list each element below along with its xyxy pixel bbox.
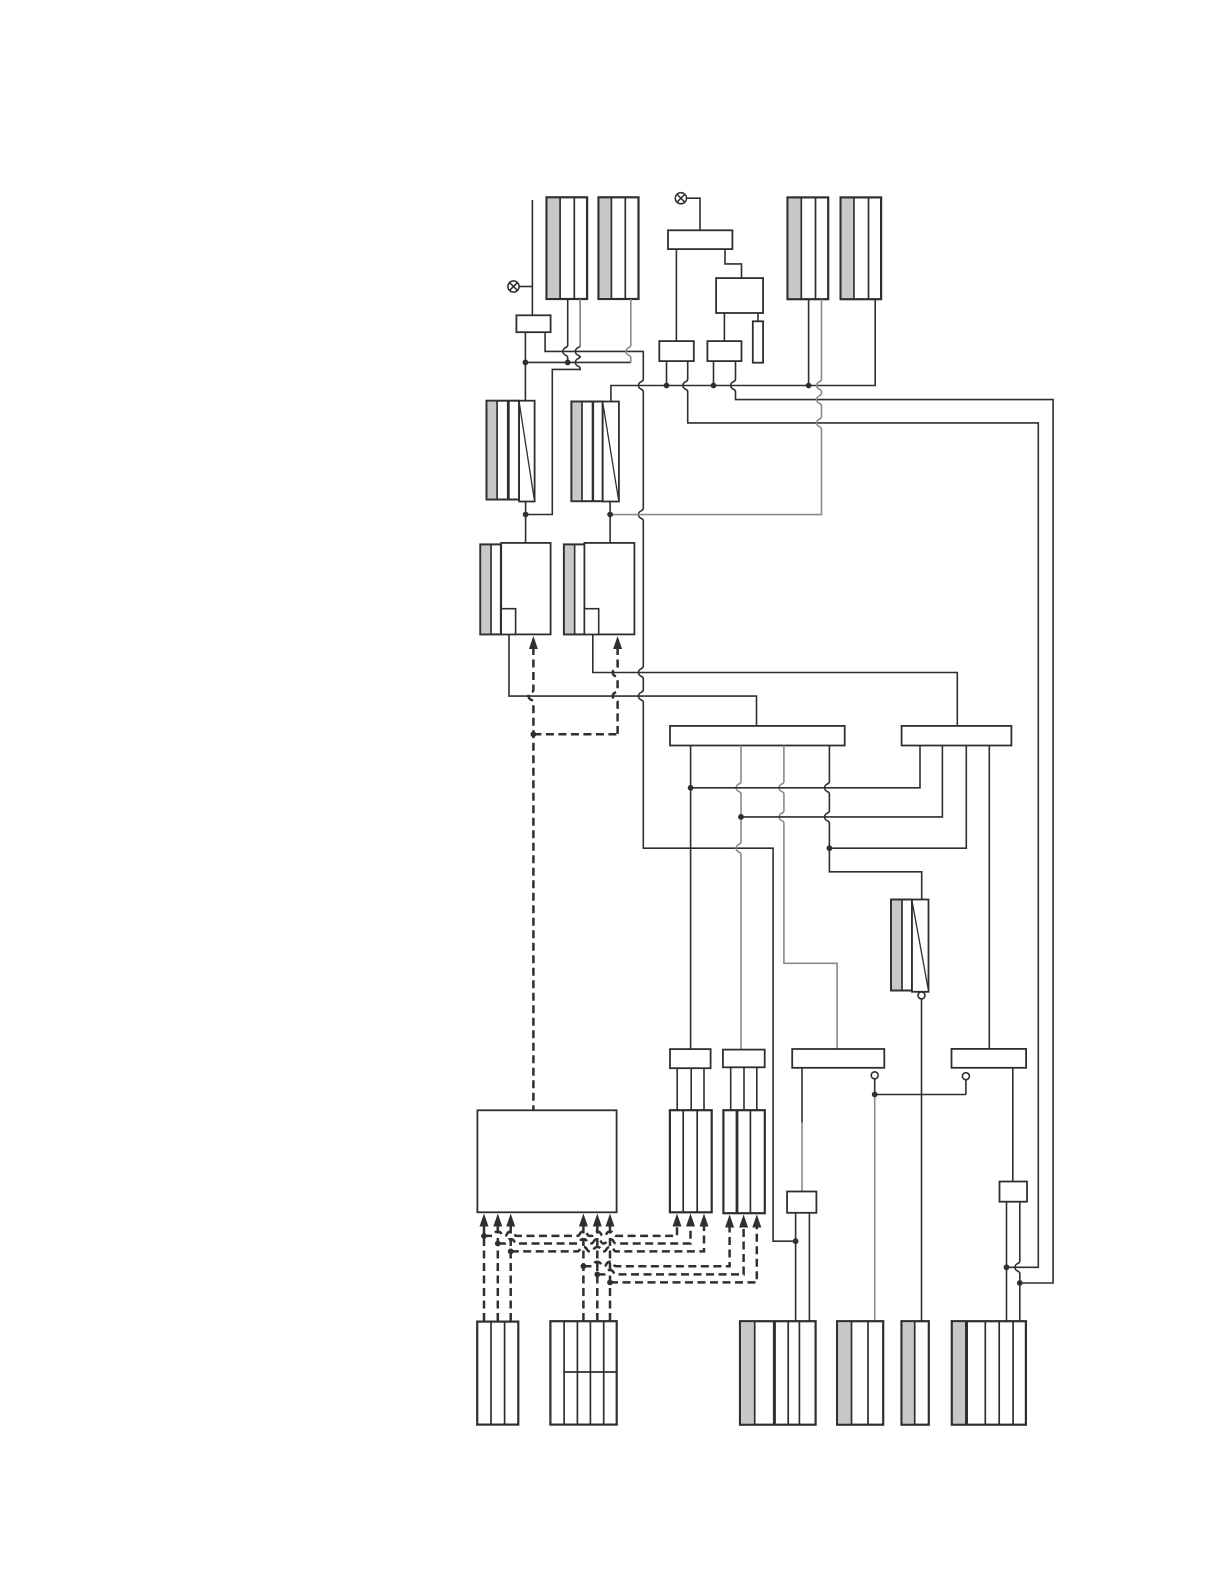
wire S2box long run right (731, 361, 1053, 1283)
wire W to M (725, 249, 742, 278)
wire K1 out to box A (509, 634, 757, 726)
wire E1 to vertical (519, 286, 532, 288)
wires R2 to connector X10 (1006, 1202, 1008, 1322)
control unit A1 (477, 1110, 616, 1212)
wire S1box long run right (683, 361, 1038, 1267)
dashed net to XA pin2 (498, 1227, 691, 1244)
wire B pin4 to bar R (988, 746, 990, 1049)
box R2 (1000, 1182, 1028, 1202)
wire X1 pin a to node (563, 299, 568, 362)
box E1 control (516, 315, 550, 332)
wire circle to node (874, 1079, 876, 1095)
wire S3 out to connector X9 (921, 999, 923, 1321)
wire box E1 to switch S1 (524, 332, 526, 401)
wire M to T (757, 313, 759, 321)
wire net A2-B2 (741, 746, 942, 817)
dashed control wire to K1 (529, 636, 538, 649)
wires R1 to connector X7 (795, 1213, 797, 1321)
wire E2 to box W (687, 198, 701, 230)
dashed vertical conn X5 pin1 (483, 1226, 486, 1322)
wire net A4-B3 (829, 746, 966, 849)
contact circle S3 (918, 992, 925, 999)
box S2 (707, 341, 741, 361)
connector XA (670, 1110, 712, 1212)
wire node to connector X8 (874, 1095, 876, 1322)
wire M to S2box (723, 313, 725, 341)
wire W to S1box (675, 249, 677, 341)
connector X1 (547, 197, 588, 299)
connector X3 (788, 197, 829, 299)
dashed net to XB pin2 (597, 1228, 743, 1275)
lamp E2 (675, 193, 686, 204)
wire box E1 right pin long run (545, 332, 796, 1241)
switch S1 (487, 401, 520, 500)
wire S1box to bus (666, 361, 668, 385)
connector X6 (550, 1321, 616, 1424)
dashed vertical conn X5 pin2 (497, 1226, 500, 1322)
connector X4 (841, 197, 882, 299)
wires bar A to connector XA (676, 1068, 678, 1110)
wire A pin3 to bar M (779, 746, 837, 1050)
terminal bar B (723, 1050, 765, 1068)
wire net A1-B1 (691, 746, 920, 788)
terminal bar M (792, 1049, 884, 1068)
relay K1 (480, 544, 501, 634)
relay K2 (564, 544, 585, 634)
contact circle bar M (871, 1072, 878, 1079)
wire S2box to bus (713, 361, 715, 385)
wire bar R right to box R2 (1012, 1068, 1014, 1182)
wire X1 pin b (526, 299, 581, 515)
wire X2 pin (626, 299, 631, 362)
node dots (523, 360, 529, 366)
dashed vertical conn X6 pin1 (582, 1226, 585, 1322)
box T resistor (753, 321, 763, 362)
connector X10 (952, 1321, 1026, 1425)
dashed net to XA pin3 (511, 1227, 704, 1252)
wire K2 out to box B (593, 634, 958, 726)
wire S1 out (525, 502, 527, 543)
box W (668, 230, 732, 249)
dashed vertical conn X6 pin2 (596, 1226, 599, 1322)
terminal bar R (952, 1049, 1027, 1068)
switch S3 (891, 900, 912, 991)
connector X7 (740, 1321, 816, 1425)
connector XB (723, 1110, 764, 1213)
wire node rail (525, 361, 630, 363)
dashed vertical conn X6 pin3 (609, 1226, 612, 1322)
connector X5 (477, 1322, 518, 1425)
wire node to bar R circle (875, 1094, 966, 1096)
bus wire 30 (611, 299, 875, 401)
wires bar B to connector XB (730, 1067, 732, 1110)
dashed net to XB pin3 (610, 1228, 757, 1283)
connector X9 (902, 1321, 929, 1425)
dashed branch to K2 (533, 733, 617, 736)
connector X8 (837, 1321, 883, 1425)
dashed net to XB pin1 (583, 1228, 729, 1267)
wire A pin2 down to bar B (736, 746, 741, 1050)
box R1 (787, 1192, 816, 1213)
box M (716, 278, 763, 313)
terminal bar A (670, 1049, 711, 1068)
wire circle R down (965, 1080, 967, 1095)
wire S2 out (609, 502, 611, 543)
connector X2 (599, 197, 639, 299)
box A (670, 726, 845, 746)
wire A pin1 down to bar A (690, 746, 692, 1050)
wire X1 pin b gray top (579, 299, 581, 348)
dashed arrows into A1 (480, 1214, 489, 1227)
wire A pin4 to switch S3 (825, 746, 922, 900)
box S1 (659, 341, 694, 361)
box B (902, 726, 1012, 746)
wire X3 pin a to bus (808, 299, 810, 385)
contact circle bar R (962, 1073, 969, 1080)
wire bar M left to box R1 (801, 1068, 803, 1123)
wire vertical to box E1 (531, 200, 533, 315)
dashed vertical conn X5 pin3 (509, 1226, 512, 1322)
wire X3 pin b gray (610, 299, 821, 514)
lamp E1 (508, 281, 519, 292)
dashed net to XA pin1 (484, 1227, 677, 1236)
switch S2 (571, 402, 602, 502)
